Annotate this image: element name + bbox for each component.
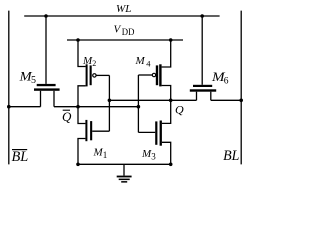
svg-text:2: 2 bbox=[92, 59, 96, 68]
svg-text:WL: WL bbox=[116, 3, 131, 15]
svg-text:BL: BL bbox=[223, 148, 239, 164]
svg-text:DD: DD bbox=[122, 27, 135, 37]
svg-text:BL: BL bbox=[12, 149, 29, 165]
svg-text:1: 1 bbox=[103, 150, 108, 160]
svg-text:M: M bbox=[135, 55, 146, 67]
svg-text:6: 6 bbox=[224, 77, 229, 87]
svg-text:5: 5 bbox=[31, 75, 36, 86]
svg-text:4: 4 bbox=[146, 58, 151, 68]
svg-text:Q: Q bbox=[62, 109, 72, 124]
svg-text:Q: Q bbox=[175, 102, 184, 116]
svg-text:3: 3 bbox=[151, 152, 156, 162]
svg-text:V: V bbox=[114, 24, 122, 36]
